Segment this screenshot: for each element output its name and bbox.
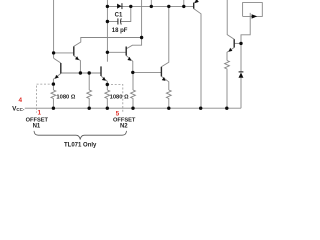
junction dot Q1 base [52,51,55,54]
svg-text:TL071 Only: TL071 Only [64,142,97,148]
resistor R6 zigzag [225,61,230,109]
junction dot offset N1 tap [52,82,55,85]
transistor Qtop collector wire [194,9,201,109]
arrow Q2 emitter [127,57,131,61]
junction dot rail R2 [88,107,91,110]
resistor R2 zigzag [87,90,92,108]
wire Q5 collector [227,0,234,39]
junction dot rail R1 [52,107,55,110]
junction dot R2 top [88,71,91,74]
diode D2 triangle [239,73,244,78]
transistor Q5 bar [233,39,235,47]
diode D1 cathode bar [121,3,124,9]
wire Q1 collector to top node [74,38,142,47]
wire VCC- rail [25,107,241,109]
resistor R1 zigzag [51,90,56,108]
arrow Q_b1 emitter [55,75,59,79]
capacitor C1 plates [118,18,121,24]
dashed offset N2 wire [107,85,123,112]
svg-text:4: 4 [19,97,23,104]
wire current source jog [241,13,250,44]
wire left long vertical [53,0,55,58]
junction dot rail R3 [106,107,109,110]
diode D2 cathode bar [239,71,244,72]
svg-text:N2: N2 [120,124,128,130]
junction dot diode cathode [129,5,132,8]
transistor Q_b1 bar [60,63,62,74]
wire Q5 emitter [227,48,234,61]
svg-text:VCC-: VCC- [12,106,25,113]
junction dot C1 left [106,20,109,23]
arrow Q_b2 emitter [102,77,106,81]
transistor Qtop bar [193,3,195,9]
wire top stub A [150,0,152,6]
wire Q5 base [234,42,241,44]
transistor Q3 bar [160,67,162,77]
arrow Q1 emitter [75,56,79,60]
resistor R3 zigzag [105,90,110,108]
wire C1 branch right [121,6,131,21]
current source box [243,3,263,17]
junction dot offset N2 tap [106,83,109,86]
arrow Q5 emitter [229,48,233,52]
junction dot node top mid [140,36,143,39]
wire top stub B [183,0,185,6]
dashed offset N1 wire [36,84,53,113]
wire vertical into Q2 collector [126,0,141,49]
wire Q2 emitter [126,56,133,73]
brace TL071 only [34,131,127,140]
diode D1 triangle [117,4,121,9]
junction dot Q2 emitter [131,71,134,74]
junction dot top rail left [106,5,109,8]
svg-text:18 pF: 18 pF [112,28,128,34]
resistor R4 zigzag [131,90,136,108]
transistor Q_b2 bar [100,66,102,76]
junction dot rail Qtop collector [199,107,202,110]
wire Q_b2 emitter [101,76,107,90]
wire Q1 base [54,52,74,54]
wire C1 branch left [107,21,117,23]
transistor Q_b1 collector wire [54,58,61,63]
wire D2 anode/cathode vertical [240,43,242,108]
wire lower base line right to Q3 [133,71,162,73]
arrow Qtop emitter [195,0,199,3]
junction dot Q1 emitter [79,71,82,74]
arrow current source [252,14,258,18]
wire top rail [107,5,193,7]
junction dot stub B [182,5,185,8]
svg-text:1080 Ω: 1080 Ω [56,94,76,100]
svg-text:1080 Ω: 1080 Ω [110,94,130,100]
transistor Qtop emitter wire [194,0,198,3]
arrow Q3 emitter [162,77,166,81]
transistor Q2 bar [125,47,127,56]
wire Q1 emitter down [74,56,81,73]
junction dot Q5 base node [239,42,242,45]
wire lower base line left pair [61,72,101,74]
junction dot stub A [150,5,153,8]
wire Q2 base [107,51,126,53]
svg-text:C1: C1 [115,12,123,18]
wire Q3 emitter [161,76,168,90]
svg-text:N1: N1 [33,124,41,130]
resistor R2 lead [88,73,90,90]
transistor Q1 bar [73,46,75,55]
resistor R4 lead [132,72,134,90]
junction dot Q2 base [106,51,109,54]
wire middle long vertical [106,0,108,62]
wire Q3 collector [161,6,168,66]
svg-text:1: 1 [38,110,42,117]
transistor bars [61,3,234,77]
transistor Q_b1 emitter wire [53,74,60,91]
junction dot Q3 collector [167,5,170,8]
junction dot rail R5 [167,107,170,110]
junction dot rail R4 [131,107,134,110]
junction dot rail R6 [225,107,228,110]
resistor R5 zigzag [166,90,171,108]
